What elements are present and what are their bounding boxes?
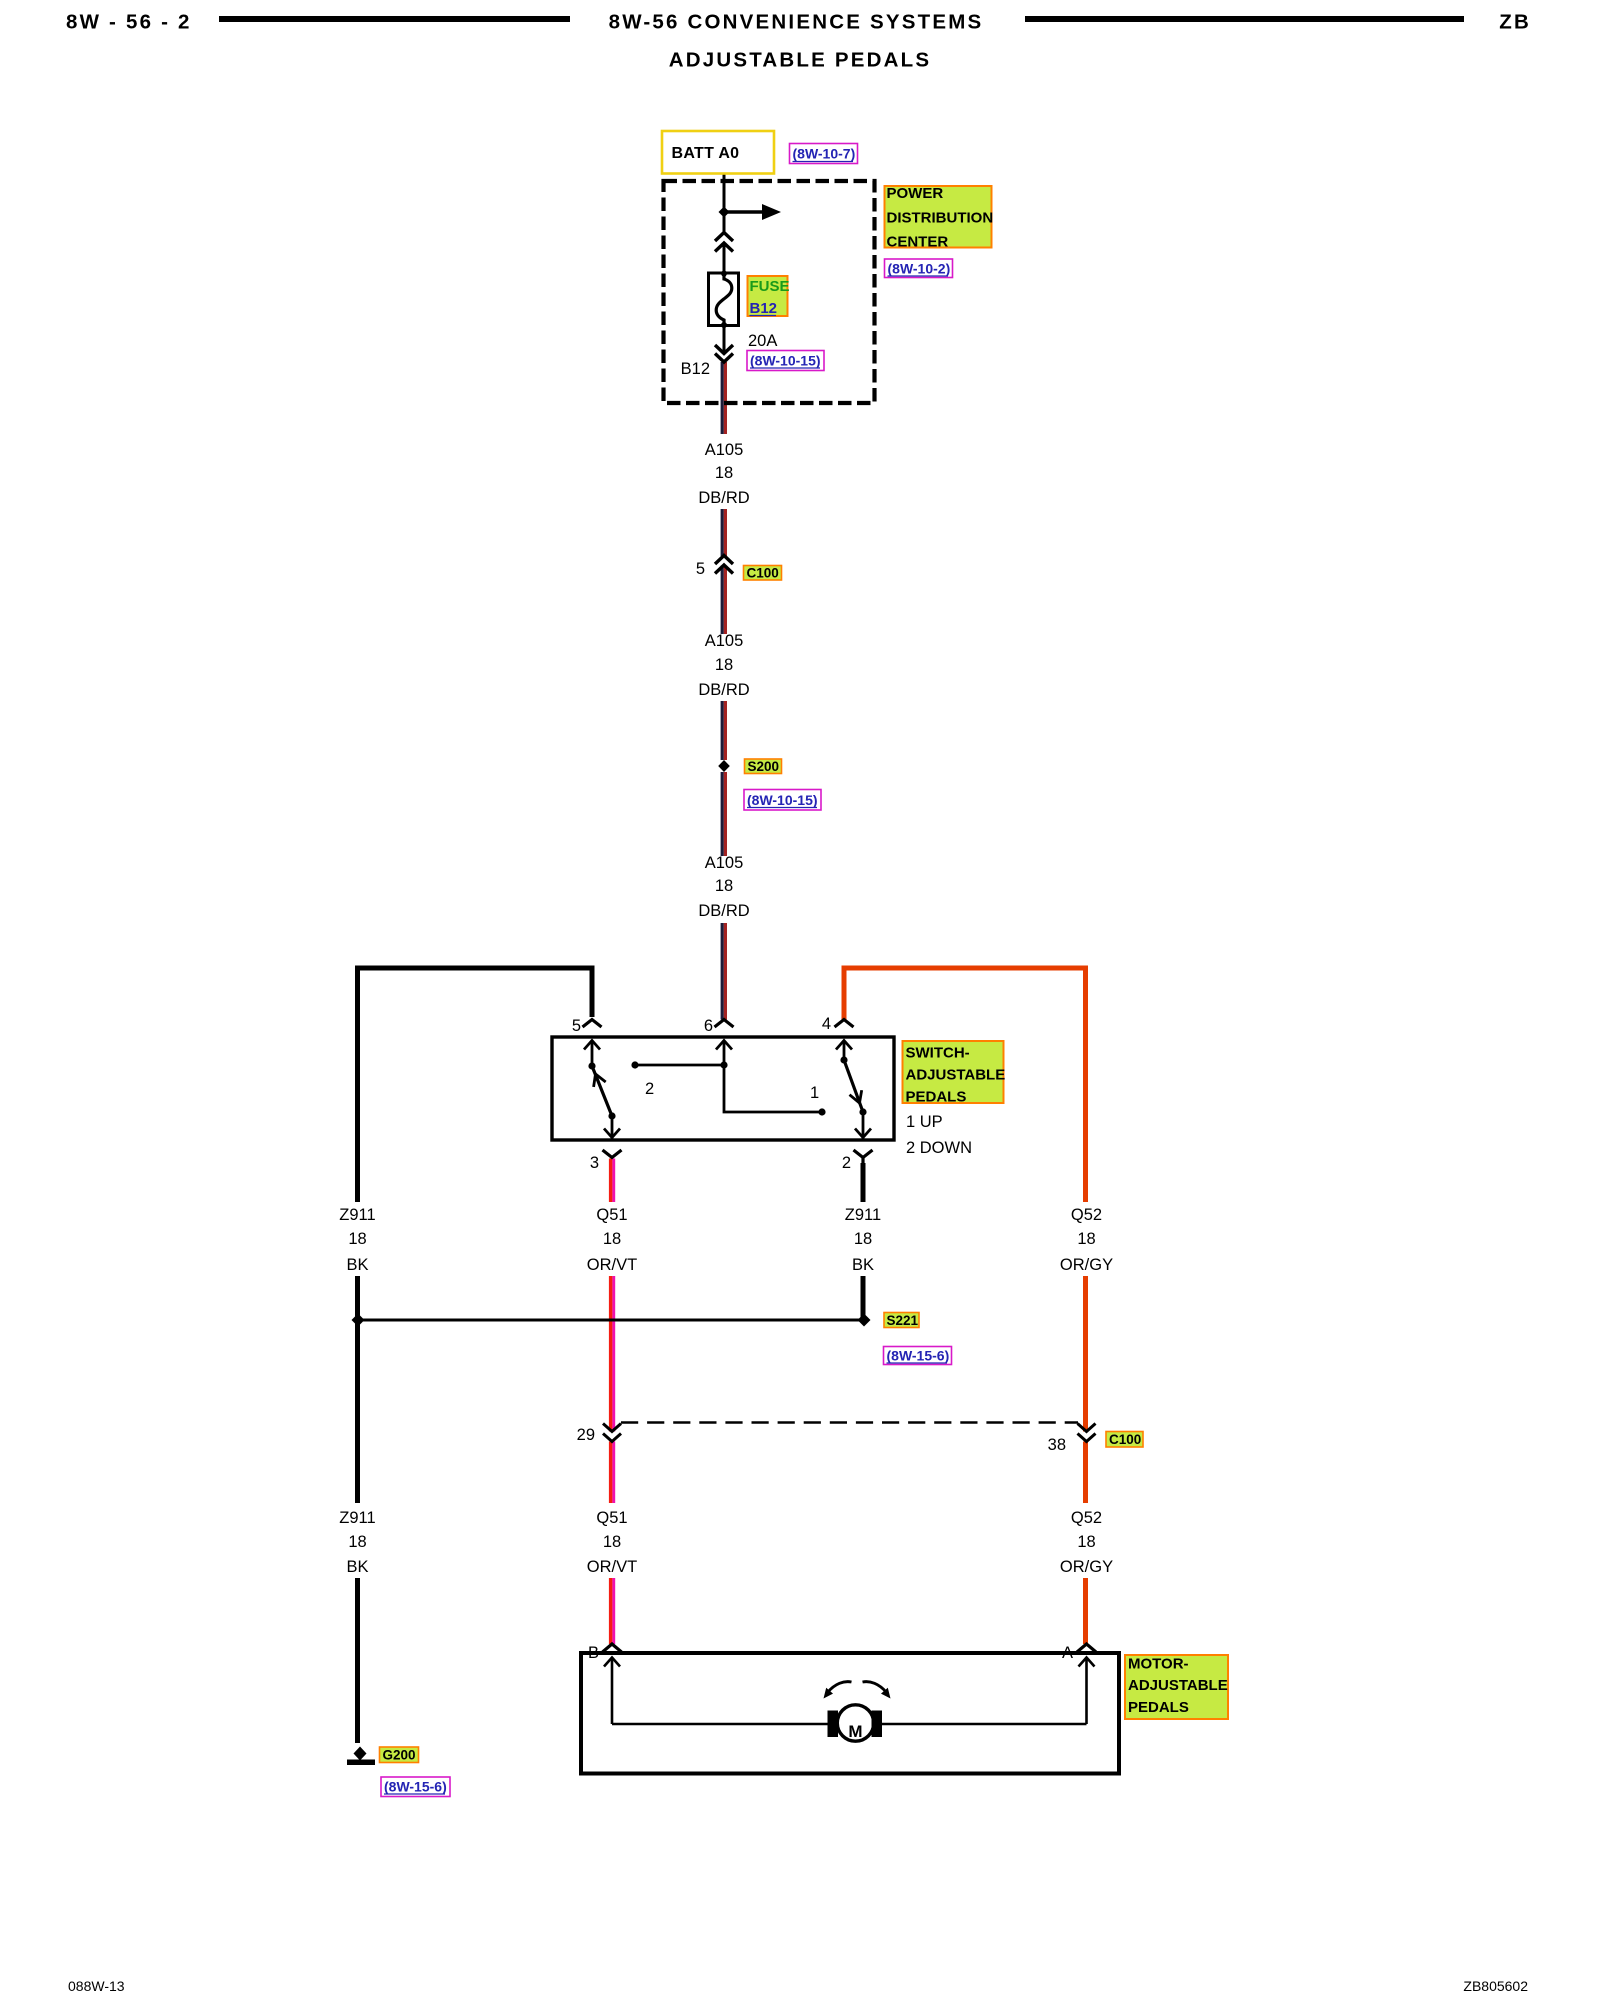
- svg-text:088W-13: 088W-13: [68, 1978, 125, 1994]
- svg-text:POWER: POWER: [887, 185, 944, 202]
- svg-text:Q51: Q51: [596, 1206, 627, 1224]
- svg-text:B12: B12: [681, 360, 710, 378]
- svg-text:(8W-10-15): (8W-10-15): [750, 353, 821, 369]
- svg-text:18: 18: [854, 1230, 872, 1248]
- svg-text:38: 38: [1048, 1436, 1066, 1454]
- svg-text:M: M: [848, 1722, 862, 1741]
- svg-text:BK: BK: [346, 1256, 368, 1274]
- svg-text:Q52: Q52: [1071, 1509, 1102, 1527]
- svg-text:18: 18: [603, 1533, 621, 1551]
- svg-text:FUSE: FUSE: [750, 278, 790, 295]
- svg-text:A105: A105: [705, 441, 744, 459]
- svg-text:BK: BK: [852, 1256, 874, 1274]
- svg-text:(8W-10-2): (8W-10-2): [888, 261, 951, 277]
- svg-text:C100: C100: [1109, 1432, 1141, 1447]
- svg-text:PEDALS: PEDALS: [1128, 1699, 1189, 1716]
- svg-text:SWITCH-: SWITCH-: [906, 1045, 970, 1062]
- svg-text:Q51: Q51: [596, 1509, 627, 1527]
- svg-text:C100: C100: [747, 566, 779, 581]
- svg-text:DISTRIBUTION: DISTRIBUTION: [887, 210, 994, 227]
- svg-text:OR/GY: OR/GY: [1060, 1558, 1113, 1576]
- svg-text:OR/VT: OR/VT: [587, 1558, 637, 1576]
- svg-text:ADJUSTABLE: ADJUSTABLE: [1128, 1677, 1228, 1694]
- svg-text:B12: B12: [750, 300, 778, 317]
- svg-text:ZB: ZB: [1499, 11, 1531, 34]
- svg-text:PEDALS: PEDALS: [906, 1089, 967, 1106]
- svg-text:18: 18: [715, 656, 733, 674]
- svg-text:S200: S200: [748, 759, 780, 774]
- svg-text:ADJUSTABLE: ADJUSTABLE: [906, 1067, 1006, 1084]
- svg-text:18: 18: [715, 877, 733, 895]
- svg-text:BATT A0: BATT A0: [672, 145, 740, 162]
- svg-text:4: 4: [822, 1015, 831, 1033]
- svg-text:2: 2: [645, 1080, 654, 1098]
- svg-text:18: 18: [603, 1230, 621, 1248]
- svg-text:3: 3: [590, 1154, 599, 1172]
- svg-text:ZB805602: ZB805602: [1463, 1978, 1528, 1994]
- svg-text:1 UP: 1 UP: [906, 1113, 943, 1131]
- svg-text:18: 18: [1077, 1533, 1095, 1551]
- svg-text:(8W-15-6): (8W-15-6): [384, 1779, 447, 1795]
- svg-text:G200: G200: [383, 1748, 416, 1763]
- svg-text:Z911: Z911: [339, 1206, 375, 1224]
- svg-text:(8W-10-15): (8W-10-15): [747, 792, 818, 808]
- svg-text:5: 5: [696, 560, 705, 578]
- svg-text:2 DOWN: 2 DOWN: [906, 1139, 972, 1157]
- svg-text:Z911: Z911: [845, 1206, 881, 1224]
- svg-text:A105: A105: [705, 854, 744, 872]
- svg-text:BK: BK: [346, 1558, 368, 1576]
- svg-text:MOTOR-: MOTOR-: [1128, 1656, 1189, 1673]
- svg-text:S221: S221: [887, 1313, 919, 1328]
- svg-text:2: 2: [842, 1154, 851, 1172]
- svg-text:OR/VT: OR/VT: [587, 1256, 637, 1274]
- svg-text:(8W-10-7): (8W-10-7): [793, 146, 856, 162]
- svg-text:20A: 20A: [748, 332, 777, 350]
- svg-text:6: 6: [704, 1017, 713, 1035]
- svg-text:B: B: [588, 1644, 599, 1662]
- svg-text:DB/RD: DB/RD: [698, 902, 749, 920]
- svg-text:DB/RD: DB/RD: [698, 489, 749, 507]
- svg-text:1: 1: [810, 1084, 819, 1102]
- svg-text:(8W-15-6): (8W-15-6): [887, 1348, 950, 1364]
- svg-text:18: 18: [348, 1533, 366, 1551]
- svg-text:CENTER: CENTER: [887, 234, 949, 251]
- svg-text:5: 5: [572, 1017, 581, 1035]
- svg-text:8W - 56 - 2: 8W - 56 - 2: [66, 11, 192, 34]
- svg-text:Q52: Q52: [1071, 1206, 1102, 1224]
- svg-text:ADJUSTABLE PEDALS: ADJUSTABLE PEDALS: [669, 49, 932, 72]
- svg-text:Z911: Z911: [339, 1509, 375, 1527]
- svg-text:DB/RD: DB/RD: [698, 681, 749, 699]
- svg-text:18: 18: [348, 1230, 366, 1248]
- svg-text:8W-56 CONVENIENCE SYSTEMS: 8W-56 CONVENIENCE SYSTEMS: [609, 11, 984, 34]
- svg-text:OR/GY: OR/GY: [1060, 1256, 1113, 1274]
- svg-text:18: 18: [1077, 1230, 1095, 1248]
- svg-text:29: 29: [577, 1426, 595, 1444]
- svg-text:18: 18: [715, 464, 733, 482]
- svg-text:A: A: [1062, 1644, 1073, 1662]
- svg-text:A105: A105: [705, 632, 744, 650]
